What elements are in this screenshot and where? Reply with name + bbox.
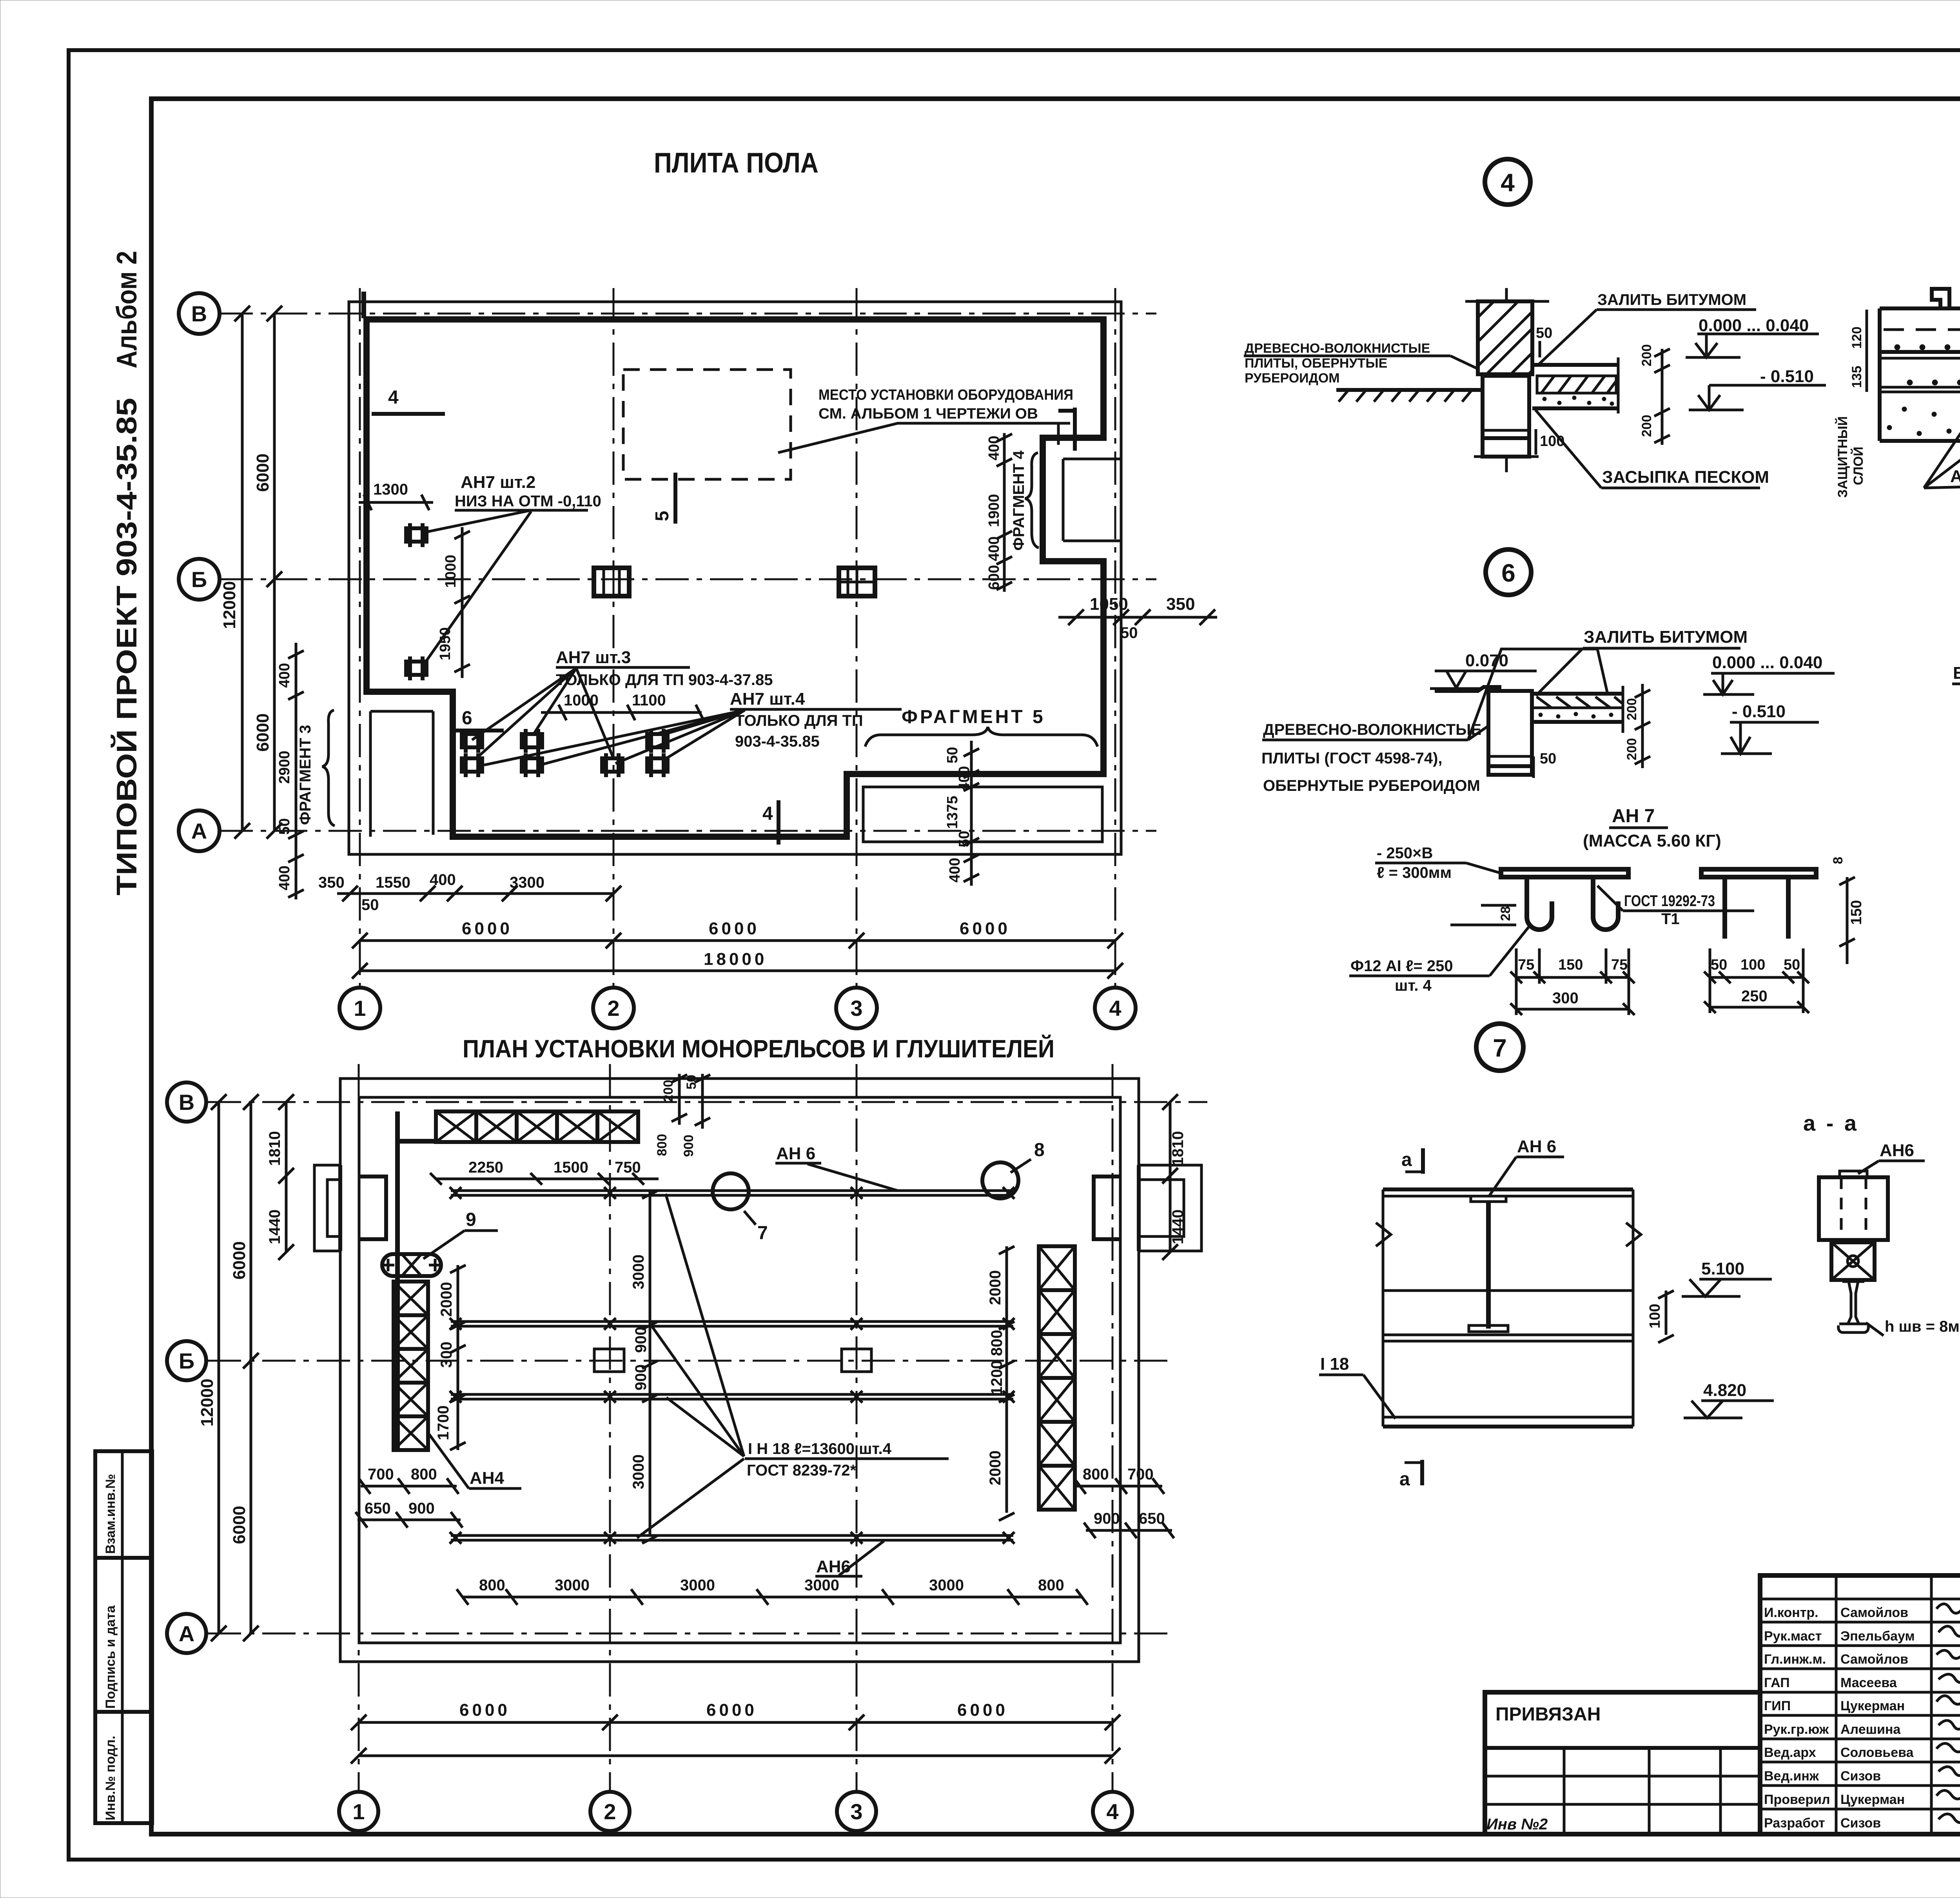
axis bubble А bbox=[179, 810, 220, 851]
detail bubble 4 bbox=[1485, 159, 1530, 205]
dims 200/200 d6 bbox=[1641, 684, 1644, 768]
svg-text:400: 400 bbox=[276, 866, 293, 890]
left dim chain 12000 bbox=[241, 314, 244, 831]
axis bubble Б p2 bbox=[167, 1341, 206, 1380]
axis bubble 1 p2 bbox=[339, 1792, 378, 1831]
svg-text:I Н 18 ℓ=13600 шт.4: I Н 18 ℓ=13600 шт.4 bbox=[748, 1440, 892, 1457]
anchor АН7 symbols bbox=[406, 523, 668, 777]
leaders АН7 шт.3 bbox=[472, 668, 613, 758]
svg-text:1810: 1810 bbox=[266, 1131, 283, 1166]
left stamp box: Инв. № подл. bbox=[95, 1712, 152, 1823]
svg-text:ПЛАН УСТАНОВКИ МОНОРЕЛЬСОВ И: ПЛАН УСТАНОВКИ МОНОРЕЛЬСОВ И ГЛУШИТЕЛЕЙ bbox=[463, 1034, 1054, 1063]
axis col 3 line bbox=[856, 288, 858, 988]
axis row А line bbox=[220, 830, 1156, 832]
axis row А line p2 bbox=[208, 1633, 1168, 1635]
svg-text:А: А bbox=[191, 819, 207, 843]
svg-text:1000: 1000 bbox=[564, 692, 599, 709]
svg-text:900: 900 bbox=[1094, 1510, 1120, 1527]
left monorail block strip bbox=[394, 1282, 428, 1450]
svg-text:Соловьева: Соловьева bbox=[1840, 1745, 1914, 1760]
fragment 3 room inner lines bbox=[370, 711, 433, 837]
svg-text:- 0.510: - 0.510 bbox=[1732, 702, 1786, 721]
svg-text:0.000 ... 0.040: 0.000 ... 0.040 bbox=[1699, 316, 1809, 335]
svg-text:1000: 1000 bbox=[443, 555, 459, 588]
svg-text:3000: 3000 bbox=[929, 1577, 964, 1594]
right portal protrusion bbox=[1139, 1165, 1201, 1251]
detail 5 rebar dots row1 bbox=[1895, 344, 1960, 385]
axis bubble В bbox=[179, 293, 220, 334]
svg-text:3000: 3000 bbox=[630, 1254, 647, 1289]
svg-text:ЗАЛИТЬ БИТУМОМ: ЗАЛИТЬ БИТУМОМ bbox=[1597, 291, 1746, 308]
svg-text:СЛОЙ: СЛОЙ bbox=[1851, 447, 1866, 485]
fragment 5 room inner lines bbox=[863, 787, 1102, 842]
left dim 1810/1440 p2 bbox=[285, 1102, 288, 1252]
svg-text:0.070: 0.070 bbox=[1465, 651, 1508, 670]
top monorail block strip with cross bracing bbox=[436, 1111, 638, 1142]
bottom dim chain detail bbox=[337, 892, 613, 895]
svg-text:9: 9 bbox=[466, 1209, 476, 1230]
axis col 3 line p2 bbox=[856, 1064, 858, 1791]
monorail rail 4 bbox=[450, 1532, 1014, 1544]
axis bubble В p2 bbox=[167, 1082, 206, 1122]
svg-text:1100: 1100 bbox=[632, 692, 666, 709]
svg-text:ДРЕВЕСНО-ВОЛОКНИСТЫЕ: ДРЕВЕСНО-ВОЛОКНИСТЫЕ bbox=[1263, 721, 1481, 738]
left portal protrusion bbox=[314, 1165, 340, 1251]
svg-text:ФРАГМЕНТ 4: ФРАГМЕНТ 4 bbox=[1010, 450, 1027, 551]
svg-text:- 0.510: - 0.510 bbox=[1760, 367, 1814, 386]
signature table texts bbox=[1764, 1605, 1915, 1831]
svg-text:1810: 1810 bbox=[1169, 1131, 1187, 1166]
svg-text:АН6: АН6 bbox=[1880, 1141, 1914, 1160]
svg-text:Т1: Т1 bbox=[1661, 910, 1680, 928]
axis bubble 2 bbox=[593, 988, 634, 1028]
view 7 I-beam bbox=[1469, 1196, 1508, 1332]
svg-text:3300: 3300 bbox=[510, 874, 544, 891]
svg-text:6000: 6000 bbox=[462, 919, 513, 938]
svg-text:50: 50 bbox=[361, 896, 379, 914]
svg-text:8: 8 bbox=[1831, 857, 1846, 864]
detail 4 dims 200/200 bbox=[1661, 349, 1664, 445]
svg-text:6000: 6000 bbox=[957, 1700, 1008, 1720]
svg-text:700: 700 bbox=[368, 1466, 394, 1483]
svg-text:h шв = 8мм: h шв = 8мм bbox=[1885, 1318, 1960, 1335]
svg-text:Б: Б bbox=[191, 567, 207, 592]
svg-text:СМ. АЛЬБОМ 1 ЧЕРТЕЖИ ОВ: СМ. АЛЬБОМ 1 ЧЕРТЕЖИ ОВ bbox=[818, 406, 1038, 422]
svg-text:350: 350 bbox=[318, 874, 345, 891]
dim 100 view7 bbox=[1665, 1291, 1668, 1335]
monorail rail 3 bbox=[450, 1391, 1014, 1403]
svg-text:РУБЕРОИДОМ: РУБЕРОИДОМ bbox=[1245, 371, 1340, 386]
svg-text:АН7 шт.4: АН7 шт.4 bbox=[730, 689, 805, 709]
svg-text:12000: 12000 bbox=[198, 1379, 217, 1427]
axis col 2 line bbox=[613, 288, 615, 988]
svg-text:Вед.арх: Вед.арх bbox=[1764, 1745, 1816, 1760]
svg-text:3: 3 bbox=[850, 1799, 862, 1824]
svg-text:50: 50 bbox=[944, 747, 961, 763]
building inner wall p2 bbox=[359, 1097, 1120, 1643]
svg-text:1700: 1700 bbox=[435, 1405, 452, 1440]
svg-text:АН7 шт.3: АН7 шт.3 bbox=[556, 648, 631, 667]
left margin: project designation vertical text bbox=[111, 251, 143, 896]
detail circle 7 on rail bbox=[713, 1173, 749, 1209]
svg-text:2000: 2000 bbox=[987, 1450, 1004, 1485]
svg-text:а - а: а - а bbox=[1803, 1111, 1859, 1135]
detail 4 foundation bbox=[1474, 376, 1539, 472]
svg-text:АН6: АН6 bbox=[816, 1557, 851, 1576]
а-а rail section bbox=[1838, 1282, 1869, 1332]
thick wall segment left of top strip bbox=[395, 1111, 400, 1450]
АН7 left dims 75/150/75 + 300 bbox=[1516, 976, 1629, 979]
svg-text:Вед.инж: Вед.инж bbox=[1764, 1769, 1819, 1784]
svg-text:Цукерман: Цукерман bbox=[1840, 1792, 1905, 1807]
svg-text:ГОСТ 8239-72*: ГОСТ 8239-72* bbox=[747, 1462, 856, 1479]
svg-text:АН7 шт.2: АН7 шт.2 bbox=[461, 473, 535, 492]
svg-text:ПЛИТА ПОЛА: ПЛИТА ПОЛА bbox=[654, 147, 818, 179]
svg-text:800: 800 bbox=[988, 1330, 1005, 1356]
axis row Б line p2 bbox=[208, 1360, 1168, 1362]
svg-text:ЗАСЫПКА ПЕСКОМ: ЗАСЫПКА ПЕСКОМ bbox=[1602, 468, 1769, 487]
svg-text:ФРАГМЕНТ 3: ФРАГМЕНТ 3 bbox=[297, 725, 314, 825]
svg-text:200: 200 bbox=[1624, 698, 1639, 720]
axis row Б line bbox=[220, 578, 1156, 580]
svg-text:Сизов: Сизов bbox=[1840, 1816, 1881, 1831]
svg-text:900: 900 bbox=[632, 1327, 650, 1353]
building outer contour p2 bbox=[340, 1079, 1139, 1662]
monorail rail 2 bbox=[450, 1318, 1014, 1330]
axis bubble 4 p2 bbox=[1093, 1792, 1132, 1831]
svg-text:Цукерман: Цукерман bbox=[1840, 1699, 1905, 1713]
svg-text:400: 400 bbox=[947, 858, 963, 883]
section mark 4 top bbox=[361, 292, 366, 318]
svg-text:6000: 6000 bbox=[709, 919, 760, 938]
svg-text:а: а bbox=[1401, 1149, 1412, 1170]
svg-text:Разработ: Разработ bbox=[1764, 1816, 1825, 1831]
svg-text:50: 50 bbox=[1711, 957, 1727, 973]
svg-text:(МАССА 5.60 КГ): (МАССА 5.60 КГ) bbox=[1583, 831, 1721, 850]
detail 4 sand dots bbox=[1543, 396, 1614, 406]
equipment place dashed rect bbox=[623, 370, 791, 479]
svg-text:2000: 2000 bbox=[438, 1282, 455, 1317]
svg-text:6000: 6000 bbox=[706, 1700, 757, 1720]
bottom dim chain 6000x3 p2 bbox=[359, 1721, 1112, 1724]
svg-text:75: 75 bbox=[1611, 957, 1628, 973]
svg-text:Сизов: Сизов bbox=[1840, 1769, 1881, 1784]
svg-text:3000: 3000 bbox=[680, 1577, 715, 1594]
svg-text:А: А bbox=[179, 1621, 194, 1646]
svg-text:Ф12 АI ℓ= 250: Ф12 АI ℓ= 250 bbox=[1350, 957, 1453, 975]
svg-text:800: 800 bbox=[1083, 1466, 1109, 1483]
svg-text:ТИПОВОЙ ПРОЕКТ 903-4-35.85: ТИПОВОЙ ПРОЕКТ 903-4-35.85 bbox=[111, 398, 143, 896]
svg-text:4: 4 bbox=[762, 803, 773, 824]
svg-text:ТОЛЬКО ДЛЯ ТП: ТОЛЬКО ДЛЯ ТП bbox=[735, 712, 863, 729]
svg-text:50: 50 bbox=[276, 818, 293, 835]
svg-text:200: 200 bbox=[1639, 415, 1654, 437]
small left dim chain 400/2900/50/400 bbox=[295, 643, 298, 899]
svg-text:350: 350 bbox=[1166, 595, 1195, 614]
svg-text:В: В bbox=[179, 1090, 194, 1115]
axis col 4 line bbox=[1114, 288, 1116, 988]
svg-text:6000: 6000 bbox=[230, 1506, 249, 1544]
column at Б/3 bbox=[839, 568, 875, 596]
svg-text:АН 6: АН 6 bbox=[776, 1144, 815, 1163]
detail 6 wall + floor section bbox=[1435, 686, 1623, 775]
svg-text:АН 7: АН 7 bbox=[1612, 806, 1655, 827]
svg-text:135: 135 bbox=[1849, 366, 1864, 388]
detail 4 floor slab right bbox=[1532, 357, 1618, 413]
axis bubble 3 p2 bbox=[837, 1792, 876, 1831]
svg-text:Рук.маст: Рук.маст bbox=[1764, 1629, 1822, 1644]
bottom dim chain 6000x3 bbox=[360, 939, 1115, 942]
svg-text:В: В bbox=[191, 301, 207, 326]
right dim 1810/1440 p2 bbox=[1169, 1102, 1172, 1252]
building outer contour plan1 bbox=[349, 302, 1121, 854]
svg-text:3: 3 bbox=[850, 996, 862, 1021]
svg-text:1950: 1950 bbox=[437, 627, 454, 660]
svg-text:МЕСТО УСТАНОВКИ ОБОРУДОВАНИЯ: МЕСТО УСТАНОВКИ ОБОРУДОВАНИЯ bbox=[818, 387, 1073, 403]
svg-text:50: 50 bbox=[956, 831, 973, 847]
svg-text:ЗАЩИТНЫЙ: ЗАЩИТНЫЙ bbox=[1835, 416, 1850, 498]
svg-text:ОБЕРНУТЫЕ РУБЕРОИДОМ: ОБЕРНУТЫЕ РУБЕРОИДОМ bbox=[1263, 777, 1480, 794]
svg-text:50: 50 bbox=[1784, 957, 1800, 973]
leaders АН7 шт.2 bbox=[421, 510, 531, 666]
svg-text:800: 800 bbox=[1038, 1577, 1064, 1594]
svg-text:а: а bbox=[1399, 1469, 1410, 1490]
svg-text:6000: 6000 bbox=[253, 453, 272, 492]
svg-text:1: 1 bbox=[352, 1799, 365, 1824]
svg-text:650: 650 bbox=[1139, 1510, 1165, 1527]
axis col 1 line p2 bbox=[358, 1064, 360, 1791]
signature squiggles bbox=[1936, 1604, 1960, 1823]
svg-text:2250: 2250 bbox=[468, 1159, 503, 1176]
dim 1000/1950 vertical bbox=[461, 527, 464, 678]
left dim 6000/6000 p2 bbox=[250, 1102, 252, 1633]
svg-text:6000: 6000 bbox=[230, 1241, 249, 1280]
svg-text:АН 6: АН 6 bbox=[1517, 1137, 1556, 1156]
detail circle 8 on rail bbox=[982, 1162, 1018, 1198]
bottom dim chain 2 p2 bbox=[359, 1755, 1112, 1757]
svg-text:Проверил: Проверил bbox=[1764, 1792, 1830, 1807]
svg-text:4: 4 bbox=[1109, 996, 1121, 1021]
svg-text:150: 150 bbox=[1848, 900, 1865, 925]
svg-text:1900: 1900 bbox=[986, 494, 1002, 527]
stadium anchor detail 9 target bbox=[382, 1254, 441, 1276]
signature table bbox=[1760, 1575, 1960, 1834]
svg-text:900: 900 bbox=[681, 1135, 696, 1157]
axis bubble 3 bbox=[836, 988, 877, 1028]
svg-text:НИЗ НА ОТМ -0,110: НИЗ НА ОТМ -0,110 bbox=[455, 493, 601, 510]
svg-text:400: 400 bbox=[956, 766, 973, 791]
svg-text:ЗАЛИТЬ БИТУМОМ: ЗАЛИТЬ БИТУМОМ bbox=[1584, 627, 1748, 647]
svg-text:2000: 2000 bbox=[987, 1270, 1004, 1305]
svg-text:3000: 3000 bbox=[630, 1454, 647, 1489]
svg-text:6000: 6000 bbox=[459, 1700, 510, 1720]
svg-text:ГИП: ГИП bbox=[1764, 1699, 1791, 1713]
svg-text:Взам.инв.№: Взам.инв.№ bbox=[103, 1474, 118, 1554]
svg-text:650: 650 bbox=[365, 1500, 391, 1517]
svg-text:Инв.№ подл.: Инв.№ подл. bbox=[103, 1736, 118, 1820]
svg-text:3000: 3000 bbox=[804, 1577, 839, 1594]
svg-text:8: 8 bbox=[1034, 1140, 1045, 1160]
svg-text:1200: 1200 bbox=[988, 1360, 1005, 1395]
svg-text:120: 120 bbox=[1849, 326, 1864, 349]
axis bubble 4 bbox=[1095, 988, 1136, 1028]
svg-text:6000: 6000 bbox=[960, 919, 1011, 938]
svg-text:АРМАТУРНАЯ СЕТКА 100/100/5/5Вр: АРМАТУРНАЯ СЕТКА 100/100/5/5ВрI bbox=[1950, 467, 1960, 486]
svg-text:400: 400 bbox=[986, 537, 1002, 561]
svg-text:50: 50 bbox=[1536, 325, 1552, 341]
svg-text:900: 900 bbox=[408, 1500, 435, 1517]
svg-text:ПЛИТЫ (ГОСТ 4598-74),: ПЛИТЫ (ГОСТ 4598-74), bbox=[1261, 750, 1443, 767]
svg-text:Самойлов: Самойлов bbox=[1840, 1652, 1908, 1667]
svg-text:ℓ = 300мм: ℓ = 300мм bbox=[1377, 864, 1452, 881]
svg-text:6: 6 bbox=[1501, 559, 1515, 587]
svg-text:1300: 1300 bbox=[373, 481, 408, 498]
dim 1050/350/50 right bbox=[1058, 616, 1217, 619]
alcove (fragment 4) inner lines bbox=[1063, 459, 1120, 541]
svg-text:100: 100 bbox=[1740, 957, 1765, 973]
svg-text:ТОЛЬКО ДЛЯ ТП 903-4-37.85: ТОЛЬКО ДЛЯ ТП 903-4-37.85 bbox=[556, 671, 773, 689]
svg-text:18000: 18000 bbox=[704, 950, 767, 969]
leaders I-beam note bbox=[637, 1194, 744, 1538]
svg-text:4: 4 bbox=[388, 387, 399, 408]
svg-text:4.820: 4.820 bbox=[1703, 1381, 1746, 1400]
axis col 2 line p2 bbox=[609, 1064, 611, 1791]
svg-text:5: 5 bbox=[652, 511, 673, 521]
а-а hanger box bbox=[1831, 1242, 1875, 1280]
mid dim 2000/300/1700 bbox=[457, 1265, 459, 1450]
axis row В line p2 bbox=[208, 1101, 1207, 1103]
svg-text:Масеева: Масеева bbox=[1840, 1675, 1897, 1690]
svg-text:шт. 4: шт. 4 bbox=[1395, 977, 1432, 994]
section mark 4 right top bbox=[1073, 408, 1077, 451]
svg-text:600: 600 bbox=[986, 565, 1002, 590]
right dim 2000/800/1200/2000 bbox=[1005, 1246, 1008, 1513]
svg-text:300: 300 bbox=[438, 1341, 455, 1368]
mid dim 3000/900/900/3000 bbox=[649, 1191, 652, 1535]
column at Б/2 bbox=[594, 568, 629, 596]
svg-text:Подпись и дата: Подпись и дата bbox=[103, 1605, 118, 1709]
svg-text:2900: 2900 bbox=[276, 750, 293, 784]
view 7: I-beam under slab bbox=[1376, 1189, 1641, 1427]
column Б/2 p2 bbox=[594, 1349, 624, 1372]
svg-text:800: 800 bbox=[479, 1577, 505, 1594]
svg-text:Альбом 2: Альбом 2 bbox=[111, 251, 143, 368]
svg-text:I 18: I 18 bbox=[1320, 1354, 1349, 1374]
monorail rail 1 bbox=[450, 1187, 1014, 1199]
svg-text:400: 400 bbox=[430, 871, 456, 888]
detail 4 ground line bbox=[1336, 390, 1483, 402]
right monorail block strip bbox=[1039, 1246, 1075, 1510]
АН7 left piece: flange + U-hooks bbox=[1501, 869, 1628, 930]
svg-text:300: 300 bbox=[1552, 990, 1579, 1007]
АН7 right dims 50/100/50 + 250 bbox=[1710, 976, 1803, 979]
svg-text:28: 28 bbox=[1498, 906, 1513, 921]
bottom dim chain 18000 bbox=[360, 970, 1115, 972]
svg-text:6: 6 bbox=[462, 708, 472, 729]
svg-text:50: 50 bbox=[1120, 624, 1138, 642]
axis col 1 line bbox=[359, 288, 361, 988]
svg-text:6000: 6000 bbox=[253, 713, 272, 752]
leader to equipment note bbox=[778, 423, 1070, 453]
svg-text:БЛОК ГЛУШИТЕЛЕЙ: БЛОК ГЛУШИТЕЛЕЙ bbox=[1953, 663, 1960, 683]
svg-text:1050: 1050 bbox=[1090, 595, 1128, 614]
left stamp box: Взам. инв. № bbox=[95, 1451, 152, 1558]
svg-text:АН4: АН4 bbox=[470, 1468, 505, 1488]
column Б/3 p2 bbox=[842, 1349, 871, 1372]
right dim chain 400/1900/400/600 bbox=[1003, 433, 1006, 592]
svg-text:150: 150 bbox=[1558, 957, 1583, 973]
axis col 4 line p2 bbox=[1112, 1064, 1114, 1791]
axis bubble 2 p2 bbox=[590, 1792, 630, 1831]
svg-text:400: 400 bbox=[276, 663, 293, 688]
svg-text:400: 400 bbox=[986, 436, 1002, 460]
svg-text:903-4-35.85: 903-4-35.85 bbox=[735, 733, 820, 750]
svg-text:50: 50 bbox=[1540, 750, 1556, 767]
appendix block Привязан bbox=[1485, 1692, 1760, 1834]
svg-text:2: 2 bbox=[607, 996, 619, 1021]
detail bubble 7 bbox=[1476, 1024, 1523, 1071]
axis bubble А p2 bbox=[167, 1614, 206, 1653]
axis bubble Б bbox=[179, 559, 220, 600]
svg-text:Инв №2: Инв №2 bbox=[1486, 1816, 1548, 1833]
svg-text:ПЛИТЫ, ОБЕРНУТЫЕ: ПЛИТЫ, ОБЕРНУТЫЕ bbox=[1245, 356, 1387, 371]
а-а slab bbox=[1819, 1171, 1888, 1240]
svg-text:7: 7 bbox=[757, 1223, 768, 1244]
svg-text:ГАП: ГАП bbox=[1764, 1675, 1790, 1690]
АН7 right piece: flange + straight stems bbox=[1701, 869, 1816, 939]
svg-text:4: 4 bbox=[1106, 1799, 1118, 1824]
svg-text:Гл.инж.м.: Гл.инж.м. bbox=[1764, 1652, 1826, 1667]
АН7 dim 150 right bbox=[1846, 877, 1849, 964]
leaders АН7 шт.4 bbox=[484, 710, 745, 765]
svg-text:1: 1 bbox=[354, 996, 366, 1021]
svg-text:200: 200 bbox=[661, 1080, 676, 1102]
svg-text:900: 900 bbox=[632, 1364, 650, 1390]
svg-text:0.000 ... 0.040: 0.000 ... 0.040 bbox=[1712, 653, 1822, 672]
svg-text:800: 800 bbox=[411, 1466, 437, 1483]
svg-text:ПРИВЯЗАН: ПРИВЯЗАН bbox=[1495, 1704, 1601, 1725]
svg-text:Самойлов: Самойлов bbox=[1840, 1605, 1908, 1620]
svg-text:250: 250 bbox=[1741, 988, 1768, 1005]
svg-text:7: 7 bbox=[1493, 1034, 1507, 1062]
svg-text:Эпельбаум: Эпельбаум bbox=[1840, 1629, 1915, 1644]
svg-text:Б: Б bbox=[179, 1349, 194, 1373]
svg-text:1500: 1500 bbox=[554, 1159, 588, 1176]
svg-text:1550: 1550 bbox=[376, 874, 410, 891]
detail bubble 6 bbox=[1486, 549, 1531, 595]
svg-text:5.100: 5.100 bbox=[1701, 1259, 1744, 1278]
svg-text:1440: 1440 bbox=[266, 1209, 283, 1244]
detail 5 slab section bbox=[1880, 274, 1960, 441]
svg-text:12000: 12000 bbox=[220, 581, 239, 629]
svg-text:4: 4 bbox=[1501, 169, 1515, 197]
svg-text:- 250×В: - 250×В bbox=[1377, 845, 1433, 862]
svg-text:И.контр.: И.контр. bbox=[1764, 1605, 1818, 1620]
svg-text:200: 200 bbox=[1624, 738, 1639, 760]
left dim chain 6000/6000 bbox=[273, 314, 276, 831]
svg-text:800: 800 bbox=[655, 1134, 670, 1156]
svg-text:ДРЕВЕСНО-ВОЛОКНИСТЫЕ: ДРЕВЕСНО-ВОЛОКНИСТЫЕ bbox=[1245, 341, 1430, 356]
svg-text:Рук.гр.юж: Рук.гр.юж bbox=[1764, 1722, 1829, 1737]
svg-text:75: 75 bbox=[1518, 957, 1534, 973]
building thick walls plan1 bbox=[367, 319, 1103, 837]
svg-text:1375: 1375 bbox=[944, 796, 961, 829]
detail 5 gravel dotted layer bbox=[1887, 395, 1960, 438]
svg-text:3000: 3000 bbox=[555, 1577, 590, 1594]
fragment 5 dim chain 50/400/1375/50/400 bbox=[970, 741, 973, 886]
svg-text:2: 2 bbox=[604, 1799, 616, 1824]
svg-text:200: 200 bbox=[1639, 344, 1654, 366]
